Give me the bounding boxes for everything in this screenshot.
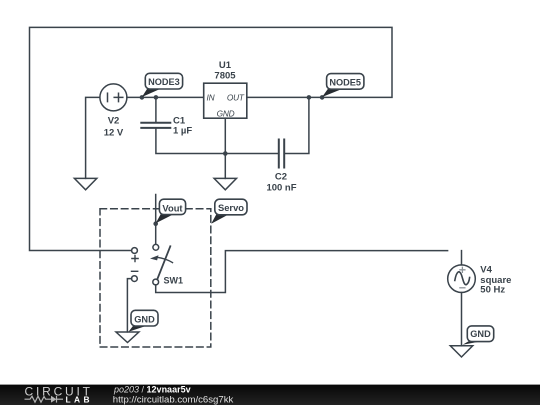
svg-text:U1: U1 — [219, 60, 232, 71]
footer text: title — [113, 384, 234, 405]
label: C1 1 uF — [173, 116, 192, 137]
svg-text:1 µF: 1 µF — [173, 125, 192, 136]
label: U1 7805 — [214, 60, 236, 82]
dashed subcircuit box — [100, 209, 211, 347]
junction dot (U1 GND on rail) — [223, 151, 228, 156]
node label Vout — [156, 199, 186, 223]
ground symbol (U1) — [214, 178, 236, 189]
node label NODE5 — [322, 74, 364, 97]
label: V2 12 V — [104, 116, 124, 139]
terminal: plus input port — [132, 248, 138, 254]
wire: minus port to ground — [127, 279, 131, 332]
node label GND (switch) — [129, 310, 159, 331]
ground symbol (switch GND) — [116, 332, 139, 343]
svg-text:http://circuitlab.com/c6sg7kk: http://circuitlab.com/c6sg7kk — [113, 395, 234, 405]
svg-text:GND: GND — [134, 314, 155, 324]
svg-text:LAB: LAB — [66, 395, 93, 405]
svg-text:C2: C2 — [275, 172, 287, 183]
ground symbol (V2) — [74, 178, 96, 189]
label: plus sign — [132, 255, 138, 261]
svg-text:OUT: OUT — [227, 92, 245, 102]
label: V4 square 50 Hz — [480, 265, 511, 296]
label: minus sign — [132, 270, 138, 272]
node Vout junction dot — [153, 221, 158, 226]
node NODE5 junction dot — [320, 95, 325, 100]
terminal: minus input port — [132, 276, 138, 282]
svg-text:NODE5: NODE5 — [329, 77, 361, 87]
label: SW1 — [164, 275, 184, 285]
pin label IN — [207, 92, 215, 102]
wire: rail to ground under U1 — [224, 154, 226, 179]
wire: V4 bottom to ground — [461, 293, 463, 346]
junction dot (C1 top) — [154, 95, 159, 100]
svg-text:IN: IN — [207, 92, 215, 102]
svg-text:GND: GND — [217, 109, 235, 119]
svg-text:Servo: Servo — [218, 202, 244, 213]
svg-text:7805: 7805 — [214, 71, 236, 82]
op-amp U1 7805 regulator body — [204, 83, 247, 118]
wire: V2 negative terminal to ground — [86, 97, 100, 178]
svg-text:50 Hz: 50 Hz — [480, 285, 505, 296]
wire: junction down to C1 — [155, 97, 157, 122]
wire: V2 positive to U1 IN — [127, 96, 204, 98]
wire: C1 bottom to ground rail — [156, 129, 279, 154]
svg-text:Vout: Vout — [162, 202, 182, 213]
voltage source V2 — [100, 84, 127, 111]
wire: U1 GND pin down to rail — [224, 118, 226, 153]
capacitor C2 — [279, 140, 284, 168]
ground symbol (V4) — [450, 346, 472, 357]
svg-text:GND: GND — [470, 329, 491, 339]
node label GND (V4) — [463, 326, 494, 345]
wire: C2 right plate up to OUT net — [285, 97, 309, 153]
svg-text:po203 / 12vnaar5v: po203 / 12vnaar5v — [113, 384, 191, 394]
node label NODE3 — [142, 73, 183, 97]
svg-text:SW1: SW1 — [164, 275, 184, 285]
wire: switch bottom to V4 — [156, 251, 448, 293]
CircuitLab logo — [25, 384, 93, 404]
wire: NODE5 feedback loop top — [30, 27, 393, 250]
switch SW1 — [150, 244, 173, 284]
svg-text:V2: V2 — [108, 116, 120, 127]
svg-text:12 V: 12 V — [104, 128, 124, 139]
capacitor C1 — [141, 123, 170, 128]
node label Servo — [211, 199, 247, 224]
voltage source V4 — [448, 265, 476, 293]
label: C2 100 nF — [266, 172, 296, 194]
wire: Vout stub down to switch — [155, 195, 157, 245]
junction dot (C2 tap) — [307, 95, 312, 100]
svg-text:100 nF: 100 nF — [266, 182, 296, 193]
pin label OUT — [227, 92, 245, 102]
footer bar — [0, 385, 540, 405]
node NODE3 junction dot — [140, 95, 145, 100]
wire: V4 top lead — [461, 251, 463, 265]
pin label GND — [217, 109, 235, 119]
svg-text:NODE3: NODE3 — [148, 77, 180, 87]
